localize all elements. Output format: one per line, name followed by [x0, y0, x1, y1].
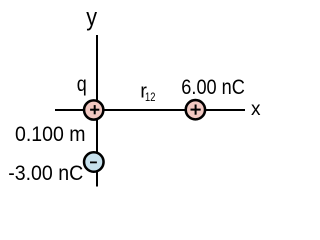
svg-text:y: y: [86, 4, 97, 32]
svg-text:6.00 nC: 6.00 nC: [181, 75, 245, 99]
svg-text:-3.00 nC: -3.00 nC: [8, 162, 83, 185]
svg-text:12: 12: [145, 90, 155, 104]
svg-text:0.100 m: 0.100 m: [15, 123, 86, 146]
svg-text:q: q: [77, 73, 87, 96]
svg-text:x: x: [251, 99, 261, 120]
